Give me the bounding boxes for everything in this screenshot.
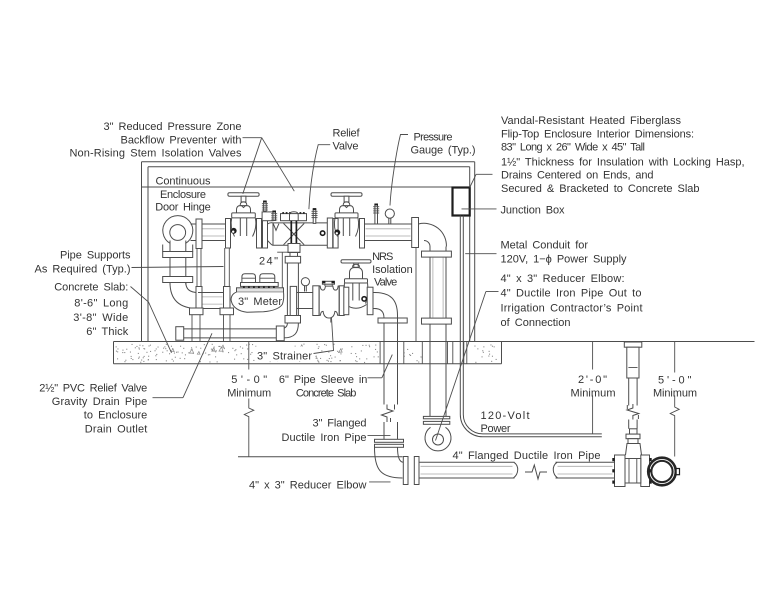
leader 3in strainer xyxy=(314,318,334,354)
label relief valve xyxy=(333,127,361,152)
svg-text:2'-0": 2'-0" xyxy=(578,374,607,386)
svg-text:3'-8" Wide: 3'-8" Wide xyxy=(73,312,128,324)
flange on vertical leg xyxy=(163,277,193,283)
label RPZ backflow preventer xyxy=(70,121,243,159)
label pipe supports xyxy=(35,250,132,276)
junction box xyxy=(453,188,470,216)
svg-text:4" x 3" Reducer Elbow: 4" x 3" Reducer Elbow xyxy=(249,480,367,492)
pipe break on 3in riser xyxy=(382,405,395,423)
90-degree elbow turning down xyxy=(419,223,447,246)
leader pipe supports xyxy=(132,267,224,268)
upper pipe segment to gate valve GV1 xyxy=(202,224,226,241)
svg-text:Pipe Supports: Pipe Supports xyxy=(60,250,131,262)
4in x 3in reducer elbow turning out of plane xyxy=(425,427,451,451)
label 5ft min left xyxy=(227,374,271,400)
relief drain lower flange block xyxy=(285,316,301,324)
5ft-0in minimum dimension line (left) xyxy=(238,342,403,457)
svg-text:to Enclosure: to Enclosure xyxy=(84,409,148,421)
label 4in pipe out xyxy=(501,273,643,329)
label 3in strainer xyxy=(257,351,312,363)
relief valve flange block xyxy=(285,256,300,263)
2ft-0in minimum dimension line xyxy=(592,342,594,434)
svg-text:Enclosure: Enclosure xyxy=(160,189,206,201)
leader 4x3 reducer elbow xyxy=(369,481,390,483)
svg-text:6" Thick: 6" Thick xyxy=(86,326,129,338)
4in flanged ductile iron pipe (left section) xyxy=(419,462,518,478)
return bend vertical pipe xyxy=(170,258,186,277)
check stem bottom box xyxy=(288,244,300,253)
pipe support saddle B xyxy=(220,308,234,315)
leader RPZ label xyxy=(243,138,295,194)
svg-text:120-Volt: 120-Volt xyxy=(481,410,530,422)
svg-text:Minimum: Minimum xyxy=(227,388,271,400)
meter label text xyxy=(238,296,282,308)
leader enclosure note xyxy=(470,174,493,187)
180-degree return bend (upper run inlet elbow) xyxy=(163,216,193,252)
svg-text:Secured & Bracketed to Concret: Secured & Bracketed to Concrete Slab xyxy=(501,183,700,195)
svg-text:3" Strainer: 3" Strainer xyxy=(257,351,312,363)
label concrete slab xyxy=(54,282,129,338)
svg-text:4" Ductile Iron Pipe Out to: 4" Ductile Iron Pipe Out to xyxy=(501,288,642,300)
lower pipe segment elbow to meter xyxy=(198,293,224,309)
24in clearance dimension xyxy=(259,252,300,287)
svg-text:Door Hinge: Door Hinge xyxy=(155,202,211,214)
mechanical joint bell (4in pipe out, end view) xyxy=(648,458,679,486)
relief drain elbow to horizontal xyxy=(280,323,299,338)
buried gate valve body xyxy=(612,455,651,487)
svg-text:NRS: NRS xyxy=(372,251,393,263)
svg-text:Minimum: Minimum xyxy=(653,387,697,399)
valve riser lower xyxy=(629,420,637,429)
svg-text:4" x 3" Reducer Elbow:: 4" x 3" Reducer Elbow: xyxy=(501,273,625,285)
leader 3in flanged pipe xyxy=(368,435,391,437)
leader junction box xyxy=(462,208,497,210)
valve riser upper xyxy=(629,378,637,406)
flange col B on lower run xyxy=(224,287,231,315)
vertical line beside riser xyxy=(415,248,417,342)
support column A xyxy=(192,249,201,342)
leader relief valve label xyxy=(309,145,330,210)
label 6in pipe sleeve xyxy=(279,374,368,400)
3in strainer xyxy=(313,281,344,323)
svg-text:Metal Conduit for: Metal Conduit for xyxy=(501,240,589,252)
label 120 volt power xyxy=(481,410,530,435)
svg-text:120V, 1−ϕ Power Supply: 120V, 1−ϕ Power Supply xyxy=(501,254,628,266)
pipe break symbol on 4in pipe xyxy=(525,465,547,479)
svg-text:6" Pipe Sleeve in: 6" Pipe Sleeve in xyxy=(279,374,368,386)
pressure gauge on upper run xyxy=(385,209,394,224)
pressure gauge on lower run xyxy=(301,278,309,292)
lower pipe stub to outlet elbow xyxy=(373,293,376,309)
4in flanged ductile iron pipe (right section) xyxy=(553,462,614,478)
leader concrete slab xyxy=(131,287,172,353)
svg-text:4" Flanged Ductile Iron Pipe: 4" Flanged Ductile Iron Pipe xyxy=(453,450,601,462)
svg-text:Irrigation Contractor’s Point: Irrigation Contractor’s Point xyxy=(501,302,643,314)
5ft-0in minimum dimension line (right) xyxy=(670,342,679,457)
svg-text:Isolation: Isolation xyxy=(372,264,413,276)
3in riser below break xyxy=(384,422,398,441)
ground line xyxy=(502,341,755,343)
leader PVC drain xyxy=(153,333,213,397)
svg-text:8'-6" Long: 8'-6" Long xyxy=(74,297,128,309)
label 2ft min xyxy=(571,374,616,400)
pipe flange F1 xyxy=(196,219,202,249)
svg-text:83" Long x 26" Wide x 45" Tall: 83" Long x 26" Wide x 45" Tall xyxy=(501,142,645,154)
svg-text:Concrete Slab:: Concrete Slab: xyxy=(54,282,128,294)
label metal conduit xyxy=(501,240,628,266)
flange above 4x3 reducer elbow xyxy=(375,439,404,447)
label junction box xyxy=(501,205,566,217)
label door hinge xyxy=(155,176,211,214)
test cock TC3 xyxy=(312,208,318,223)
pipe support saddle A xyxy=(190,308,204,315)
PVC gravity drain pipe xyxy=(184,329,284,338)
test cock TC1 xyxy=(262,201,273,221)
svg-text:Valve: Valve xyxy=(374,277,397,289)
svg-text:Backflow Preventer with: Backflow Preventer with xyxy=(121,135,242,147)
GV2 inlet flange xyxy=(333,219,338,249)
svg-text:Relief: Relief xyxy=(333,127,361,139)
flange on 4in riser (upper) xyxy=(422,251,452,257)
4in riser pipe to below slab xyxy=(430,324,446,416)
4in riser pipe inside enclosure xyxy=(430,247,446,319)
svg-text:of Connection: of Connection xyxy=(501,317,571,329)
svg-text:3" Meter: 3" Meter xyxy=(238,296,282,308)
buried valve bonnet and operating nut xyxy=(626,429,642,455)
pipe flange F2 before elbow xyxy=(412,218,419,248)
label NRS isolation valve xyxy=(372,251,413,289)
3in water meter xyxy=(231,274,284,312)
vertical leg to lower elbow xyxy=(170,283,186,285)
svg-text:Non-Rising Stem Isolation Valv: Non-Rising Stem Isolation Valves xyxy=(70,147,243,159)
flange on 4in riser (lower) xyxy=(422,318,452,324)
svg-text:Flip-Top Enclosure Interior Di: Flip-Top Enclosure Interior Dimensions: xyxy=(501,129,694,141)
label pressure gauge xyxy=(411,132,476,157)
RPZ outlet flange xyxy=(327,218,332,248)
elbow lower run turning down xyxy=(375,293,398,319)
svg-text:3" Flanged: 3" Flanged xyxy=(313,418,367,430)
leader 6in pipe sleeve xyxy=(368,355,393,378)
test cock TC4 xyxy=(373,204,379,225)
relief drain vertical pipe xyxy=(287,263,298,316)
svg-text:Concrete Slab: Concrete Slab xyxy=(296,388,357,400)
label 3in flanged pipe xyxy=(282,418,367,445)
svg-text:Gauge (Typ.): Gauge (Typ.) xyxy=(411,145,476,157)
leader pressure gauge label xyxy=(390,135,408,206)
label 4in flanged pipe xyxy=(453,450,601,462)
label 5ft min right xyxy=(653,374,697,399)
NRS isolation valve xyxy=(341,260,373,315)
meter outlet flange xyxy=(290,286,296,315)
valve box tube xyxy=(627,347,639,378)
svg-text:Junction Box: Junction Box xyxy=(501,205,566,217)
flange col A on lower run xyxy=(196,287,202,315)
conduit sweep below grade xyxy=(460,408,602,437)
label enclosure note xyxy=(501,115,745,195)
svg-text:Ductile Iron Pipe: Ductile Iron Pipe xyxy=(282,432,367,444)
label PVC drain xyxy=(39,383,147,436)
flange on 3in riser xyxy=(378,318,407,323)
relief valve drain neck xyxy=(290,253,298,257)
svg-text:Drain Outlet: Drain Outlet xyxy=(85,424,148,436)
svg-text:3" Reduced Pressure Zone: 3" Reduced Pressure Zone xyxy=(104,121,242,133)
svg-text:2½" PVC Relief Valve: 2½" PVC Relief Valve xyxy=(39,383,147,395)
upper pipe segment GV2 to elbow flange xyxy=(365,224,412,241)
svg-text:Gravity Drain Pipe: Gravity Drain Pipe xyxy=(52,396,148,408)
lower pipe segment meter to strainer xyxy=(297,293,313,309)
flange on return bend lower leg xyxy=(163,252,193,258)
elbow from vertical leg into lower run xyxy=(170,283,198,309)
continuous enclosure door hinge line xyxy=(142,186,453,188)
valve box flange at grade xyxy=(624,342,642,347)
svg-text:Continuous: Continuous xyxy=(156,176,212,188)
pipe break on valve riser xyxy=(627,404,639,420)
svg-text:As Required (Typ.): As Required (Typ.) xyxy=(35,263,131,275)
RPZ inlet flange xyxy=(263,219,268,249)
svg-text:Valve: Valve xyxy=(333,141,359,153)
leader 4in pipe out xyxy=(436,292,499,441)
metal conduit from junction box xyxy=(460,216,463,408)
4in x 3in reducer elbow at bottom xyxy=(375,447,404,478)
test cock TC2 xyxy=(271,211,277,221)
label 4x3 reducer elbow xyxy=(249,480,367,492)
concrete slab with hatch and pipe sleeves xyxy=(114,342,502,364)
leader metal conduit xyxy=(465,253,496,255)
drain pipe end cap at enclosure drain outlet xyxy=(176,327,184,341)
svg-text:1½" Thickness for Insulation w: 1½" Thickness for Insulation with Lockin… xyxy=(501,156,745,168)
svg-text:Vandal-Resistant Heated Fiberg: Vandal-Resistant Heated Fiberglass xyxy=(501,115,682,127)
svg-text:24": 24" xyxy=(259,255,278,267)
svg-text:Drains Centered on Ends, and: Drains Centered on Ends, and xyxy=(501,170,654,182)
upper pipe segment from return bend to flange xyxy=(191,224,197,241)
gate valve GV1 (non-rising stem isolation valve) xyxy=(226,193,262,248)
svg-text:Pressure: Pressure xyxy=(414,132,453,144)
flange pair after reducer elbow xyxy=(403,457,419,485)
reduced pressure zone backflow preventer U-RPZ xyxy=(268,212,333,248)
drain pipe flange xyxy=(276,326,284,341)
svg-text:Minimum: Minimum xyxy=(571,387,616,399)
support column B xyxy=(224,248,231,342)
gate valve GV2 (non-rising stem isolation valve) xyxy=(331,193,365,248)
svg-text:Power: Power xyxy=(481,423,511,435)
3in riser pipe through slab xyxy=(384,316,398,405)
fiberglass enclosure outline xyxy=(142,162,475,342)
flange pair above outlet elbow xyxy=(423,416,449,424)
